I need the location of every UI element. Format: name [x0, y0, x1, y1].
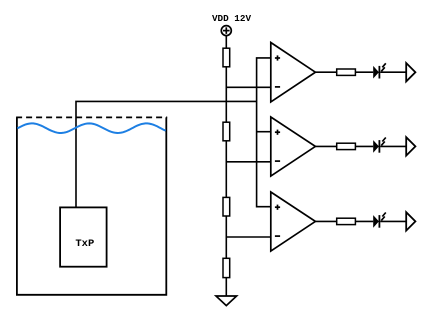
- resistor R4: [223, 258, 230, 277]
- wire R4 to ground: [225, 278, 227, 296]
- tank top (dashed open lid): [16, 116, 167, 118]
- output port 3: [406, 212, 415, 230]
- wire R3 to R4: [225, 216, 227, 258]
- wire D3 to output port 3: [380, 220, 406, 222]
- power terminal VDD: [221, 26, 231, 36]
- output port 1: [406, 63, 415, 81]
- resistor R1: [223, 48, 230, 67]
- output port 2: [406, 137, 415, 155]
- wire tap1 to U1 inverting input: [226, 86, 270, 88]
- wire tap3 to U3 inverting input: [226, 236, 270, 238]
- ground: [216, 296, 237, 306]
- wire bus to U2 non-inverting input: [257, 131, 271, 133]
- wire VDD to R1: [225, 36, 227, 48]
- wire U2 output to R6: [315, 145, 336, 147]
- svg-text:VDD 12V: VDD 12V: [212, 13, 251, 24]
- node bus (probe signal to non-inverting inputs): [257, 58, 271, 207]
- wire D1 to output port 1: [380, 71, 406, 73]
- wire U3 output to R7: [315, 220, 336, 222]
- resistor R7: [337, 218, 356, 224]
- wire R6 to D2: [355, 145, 373, 147]
- wire R1 to R2: [225, 67, 227, 122]
- tank walls: [17, 117, 166, 294]
- wire R5 to D1: [355, 71, 373, 73]
- resistor R2: [223, 122, 230, 141]
- resistor R3: [223, 197, 230, 216]
- wire probe to bus: [76, 101, 257, 207]
- svg-text:TxP: TxP: [75, 238, 94, 250]
- probe TxP box: [60, 207, 107, 266]
- water level wave: [17, 123, 165, 133]
- resistor R5: [337, 69, 356, 75]
- wire R7 to D3: [355, 220, 373, 222]
- op-amp U2: [271, 117, 316, 176]
- op-amp U1: [271, 43, 316, 102]
- wire U1 output to R5: [315, 71, 336, 73]
- wire tap2 to U2 inverting input: [226, 161, 270, 163]
- LED D3: [373, 213, 386, 228]
- wire D2 to output port 2: [380, 145, 406, 147]
- LED D1: [373, 63, 386, 78]
- wire R2 to R3: [225, 141, 227, 198]
- op-amp U3: [271, 192, 316, 251]
- LED D2: [373, 138, 386, 153]
- resistor R6: [337, 143, 356, 149]
